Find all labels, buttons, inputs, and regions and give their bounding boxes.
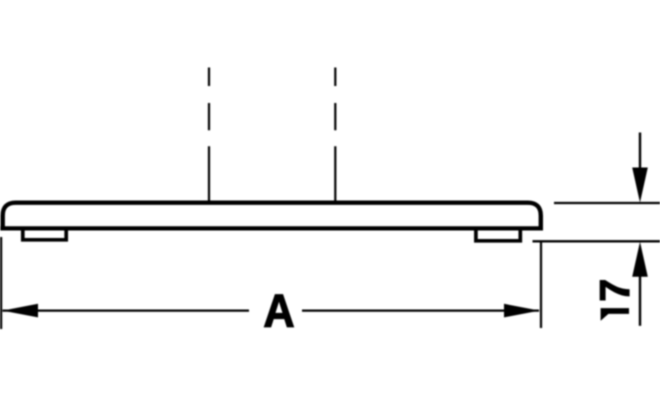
plate outline (cover cap side view) [3, 203, 541, 229]
dimension line 17 lower segment [639, 276, 641, 326]
right foot [476, 229, 520, 241]
arrowhead A right [504, 304, 540, 318]
arrowhead A left [3, 304, 39, 318]
label 17 digit 1 (rotated, drawn) [601, 308, 629, 321]
extension line 17 bottom [533, 240, 660, 242]
dimension line A [3, 310, 540, 312]
extension line A right [540, 242, 542, 328]
centerline right (dashed) [334, 68, 336, 203]
svg-text:A: A [263, 286, 294, 336]
arrowhead 17 up [632, 242, 648, 277]
left foot [23, 229, 66, 240]
svg-text:7: 7 [591, 279, 638, 302]
extension line A left [0, 237, 2, 329]
extension line 17 top [554, 202, 660, 204]
dimension line 17 upper segment [639, 133, 641, 171]
centerline left (dashed) [208, 68, 210, 203]
plate bottom edge [0, 226, 543, 230]
arrowhead 17 down [632, 168, 648, 203]
